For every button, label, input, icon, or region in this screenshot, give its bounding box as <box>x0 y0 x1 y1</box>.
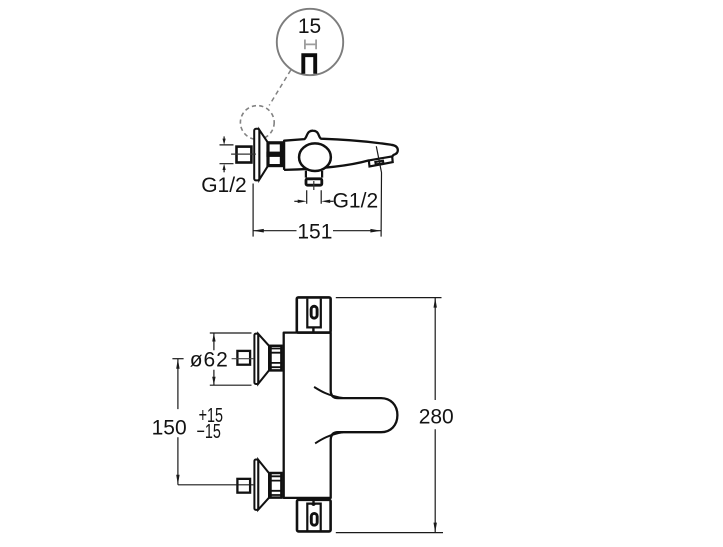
svg-text:15: 15 <box>298 15 321 38</box>
front view body with spout <box>284 333 398 498</box>
leader dashed <box>269 70 291 105</box>
top handle tick <box>312 327 314 332</box>
bottom handle capsule <box>311 513 317 525</box>
svg-text:150: 150 <box>152 416 187 439</box>
spout fillet bottom <box>315 432 343 443</box>
bottom handle tick <box>312 500 314 504</box>
bottom union check nut <box>271 473 282 498</box>
top handle slot <box>307 299 321 328</box>
outlet dim arrow left <box>329 200 334 202</box>
check nut band <box>266 152 283 157</box>
svg-text:151: 151 <box>297 221 332 244</box>
top handle <box>297 297 331 332</box>
280 dimension line <box>434 298 436 533</box>
svg-text:−15: −15 <box>197 420 221 443</box>
151 extension right <box>376 146 381 236</box>
detail circle <box>277 9 343 75</box>
aerator <box>369 156 393 166</box>
width marker H <box>305 40 316 50</box>
svg-text:ø62: ø62 <box>190 349 229 372</box>
bottom union cone <box>258 460 269 510</box>
150 dimension line <box>177 359 179 485</box>
wall cone (side) <box>259 130 267 180</box>
side view body <box>284 131 398 170</box>
svg-text:G1/2: G1/2 <box>333 190 379 213</box>
shower outlet neck <box>306 171 322 178</box>
bottom union hex nipple <box>237 479 250 493</box>
inlet hex nipple (side) <box>237 147 252 163</box>
svg-text:G1/2: G1/2 <box>201 174 247 197</box>
top union hex nipple <box>237 351 250 365</box>
bottom union center line + 150 leader <box>178 484 254 486</box>
shower outlet flange <box>306 179 322 185</box>
bottom handle notch <box>311 504 316 506</box>
bottom union escutcheon plate <box>254 460 258 510</box>
outlet center line <box>313 181 315 190</box>
top union cone <box>258 334 269 384</box>
top union center line <box>232 358 254 360</box>
inlet center line <box>231 153 256 155</box>
bottom handle <box>297 500 331 532</box>
outlet dim extension lines <box>307 190 322 203</box>
wall escutcheon plate (side) <box>254 129 259 181</box>
dia62 extension lines <box>210 333 252 385</box>
aerator insert <box>375 161 383 165</box>
280 extension lines <box>336 298 443 533</box>
151 dimension line <box>253 230 381 232</box>
detail source dashed circle <box>240 106 274 140</box>
check nut (side) <box>268 143 281 166</box>
clip cross-section <box>303 55 315 73</box>
top union check nut <box>271 346 282 371</box>
svg-text:280: 280 <box>419 405 454 428</box>
dia62 dimension line <box>213 333 215 385</box>
bottom handle slot <box>307 504 320 533</box>
small dim arrow down <box>223 139 226 145</box>
small dim arrow up <box>223 164 226 170</box>
small dim extension lines <box>220 145 234 164</box>
spout fillet top <box>314 387 343 398</box>
knob circle (side) <box>299 143 331 171</box>
outlet dim arrow right <box>294 200 299 202</box>
150 top tick <box>172 358 183 360</box>
top union escutcheon plate <box>254 334 258 384</box>
151 extension left <box>252 184 254 237</box>
top handle capsule <box>311 306 317 318</box>
